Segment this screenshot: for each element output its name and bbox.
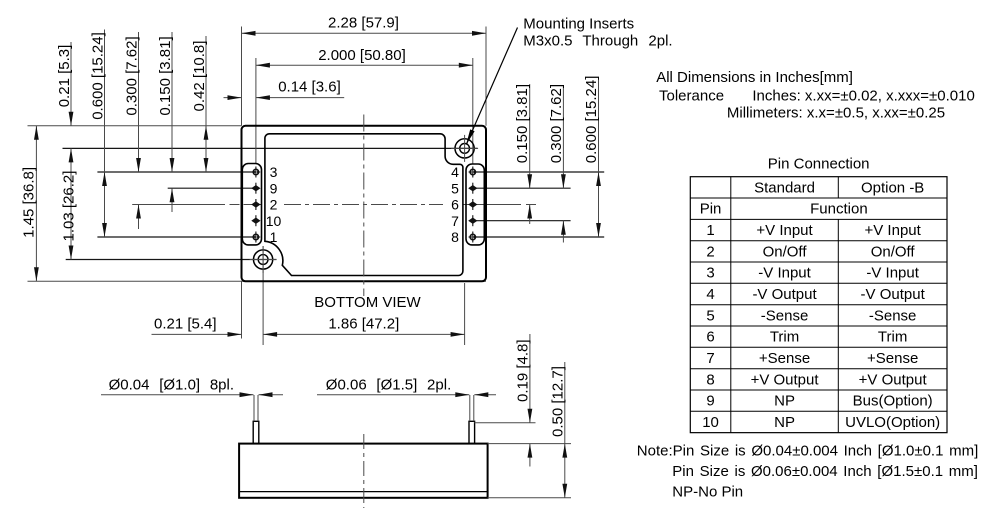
svg-text:NP: NP (774, 414, 795, 431)
svg-text:Note:Pin Size is Ø0.04±0.004 I: Note:Pin Size is Ø0.04±0.004 Inch [Ø1.0±… (637, 442, 978, 459)
svg-text:6: 6 (706, 329, 714, 346)
svg-text:All Dimensions in Inches[mm]: All Dimensions in Inches[mm] (656, 69, 853, 86)
svg-text:0.150 [3.81]: 0.150 [3.81] (514, 84, 531, 163)
svg-text:Inches: x.xx=±0.02, x.xxx=±0.0: Inches: x.xx=±0.02, x.xxx=±0.010 (752, 88, 974, 105)
svg-text:On/Off: On/Off (871, 243, 916, 260)
svg-text:-V Input: -V Input (866, 265, 919, 282)
svg-text:0.300 [7.62]: 0.300 [7.62] (124, 36, 141, 115)
svg-text:Pin: Pin (700, 201, 722, 218)
svg-text:1.45 [36.8]: 1.45 [36.8] (21, 167, 38, 238)
svg-text:Pin Connection: Pin Connection (768, 156, 870, 173)
svg-text:1.86 [47.2]: 1.86 [47.2] (328, 315, 399, 332)
svg-text:-V Output: -V Output (752, 286, 817, 303)
svg-text:0.300 [7.62]: 0.300 [7.62] (548, 84, 565, 163)
svg-text:0.600 [15.24]: 0.600 [15.24] (90, 32, 107, 120)
svg-text:BOTTOM VIEW: BOTTOM VIEW (314, 294, 421, 311)
svg-text:0.21 [5.3]: 0.21 [5.3] (56, 45, 73, 108)
svg-text:2: 2 (706, 243, 714, 260)
svg-text:0.42 [10.8]: 0.42 [10.8] (191, 41, 208, 112)
svg-text:Tolerance: Tolerance (659, 88, 724, 105)
svg-text:+V Input: +V Input (756, 222, 813, 239)
svg-text:Trim: Trim (878, 329, 907, 346)
svg-text:9: 9 (706, 393, 714, 410)
svg-text:1: 1 (706, 222, 714, 239)
svg-text:0.21 [5.4]: 0.21 [5.4] (154, 315, 217, 332)
svg-text:Mounting Inserts: Mounting Inserts (523, 15, 634, 32)
svg-text:7: 7 (706, 350, 714, 367)
svg-text:10: 10 (702, 414, 719, 431)
svg-text:Pin Size is Ø0.06±0.004 Inch [: Pin Size is Ø0.06±0.004 Inch [Ø1.5±0.1 m… (672, 463, 978, 480)
svg-text:Millimeters: x.x=±0.5, x.xx=±0: Millimeters: x.x=±0.5, x.xx=±0.25 (727, 105, 945, 122)
svg-text:5: 5 (451, 180, 459, 196)
svg-text:4: 4 (706, 286, 714, 303)
svg-text:3: 3 (706, 265, 714, 282)
svg-text:+V Input: +V Input (865, 222, 922, 239)
svg-text:Bus(Option): Bus(Option) (853, 393, 933, 410)
svg-text:10: 10 (266, 213, 282, 229)
svg-text:Function: Function (810, 201, 868, 218)
svg-text:7: 7 (451, 213, 459, 229)
svg-text:Ø0.04 [Ø1.0] 8pl.: Ø0.04 [Ø1.0] 8pl. (109, 377, 234, 394)
svg-text:-Sense: -Sense (761, 307, 809, 324)
svg-text:+Sense: +Sense (759, 350, 810, 367)
svg-text:0.150 [3.81]: 0.150 [3.81] (157, 36, 174, 115)
svg-text:Trim: Trim (770, 329, 799, 346)
svg-text:1: 1 (270, 229, 278, 245)
svg-text:+Sense: +Sense (867, 350, 918, 367)
svg-text:+V Output: +V Output (859, 371, 928, 388)
svg-text:NP-No Pin: NP-No Pin (672, 484, 743, 501)
svg-text:2.28 [57.9]: 2.28 [57.9] (328, 14, 399, 31)
svg-text:9: 9 (270, 180, 278, 196)
svg-text:5: 5 (706, 307, 714, 324)
svg-text:6: 6 (451, 197, 459, 213)
svg-text:0.50 [12.7]: 0.50 [12.7] (549, 366, 566, 437)
svg-text:0.14 [3.6]: 0.14 [3.6] (278, 79, 341, 96)
svg-text:8: 8 (451, 229, 459, 245)
svg-text:0.600 [15.24]: 0.600 [15.24] (583, 76, 600, 164)
svg-text:Standard: Standard (754, 179, 815, 196)
svg-text:8: 8 (706, 371, 714, 388)
svg-text:NP: NP (774, 393, 795, 410)
svg-text:2: 2 (270, 197, 278, 213)
svg-text:UVLO(Option): UVLO(Option) (845, 414, 940, 431)
svg-text:1.03 [26.2]: 1.03 [26.2] (61, 171, 78, 242)
svg-text:2.000 [50.80]: 2.000 [50.80] (318, 47, 406, 64)
svg-text:Ø0.06 [Ø1.5] 2pl.: Ø0.06 [Ø1.5] 2pl. (326, 377, 451, 394)
svg-text:0.19 [4.8]: 0.19 [4.8] (514, 339, 531, 402)
svg-text:Option -B: Option -B (861, 179, 924, 196)
svg-text:On/Off: On/Off (763, 243, 808, 260)
svg-text:-V Output: -V Output (861, 286, 926, 303)
svg-text:-V Input: -V Input (758, 265, 811, 282)
svg-text:3: 3 (270, 164, 278, 180)
svg-text:4: 4 (451, 164, 459, 180)
svg-text:+V Output: +V Output (751, 371, 820, 388)
svg-text:M3x0.5 Through 2pl.: M3x0.5 Through 2pl. (523, 33, 672, 50)
svg-text:-Sense: -Sense (869, 307, 917, 324)
